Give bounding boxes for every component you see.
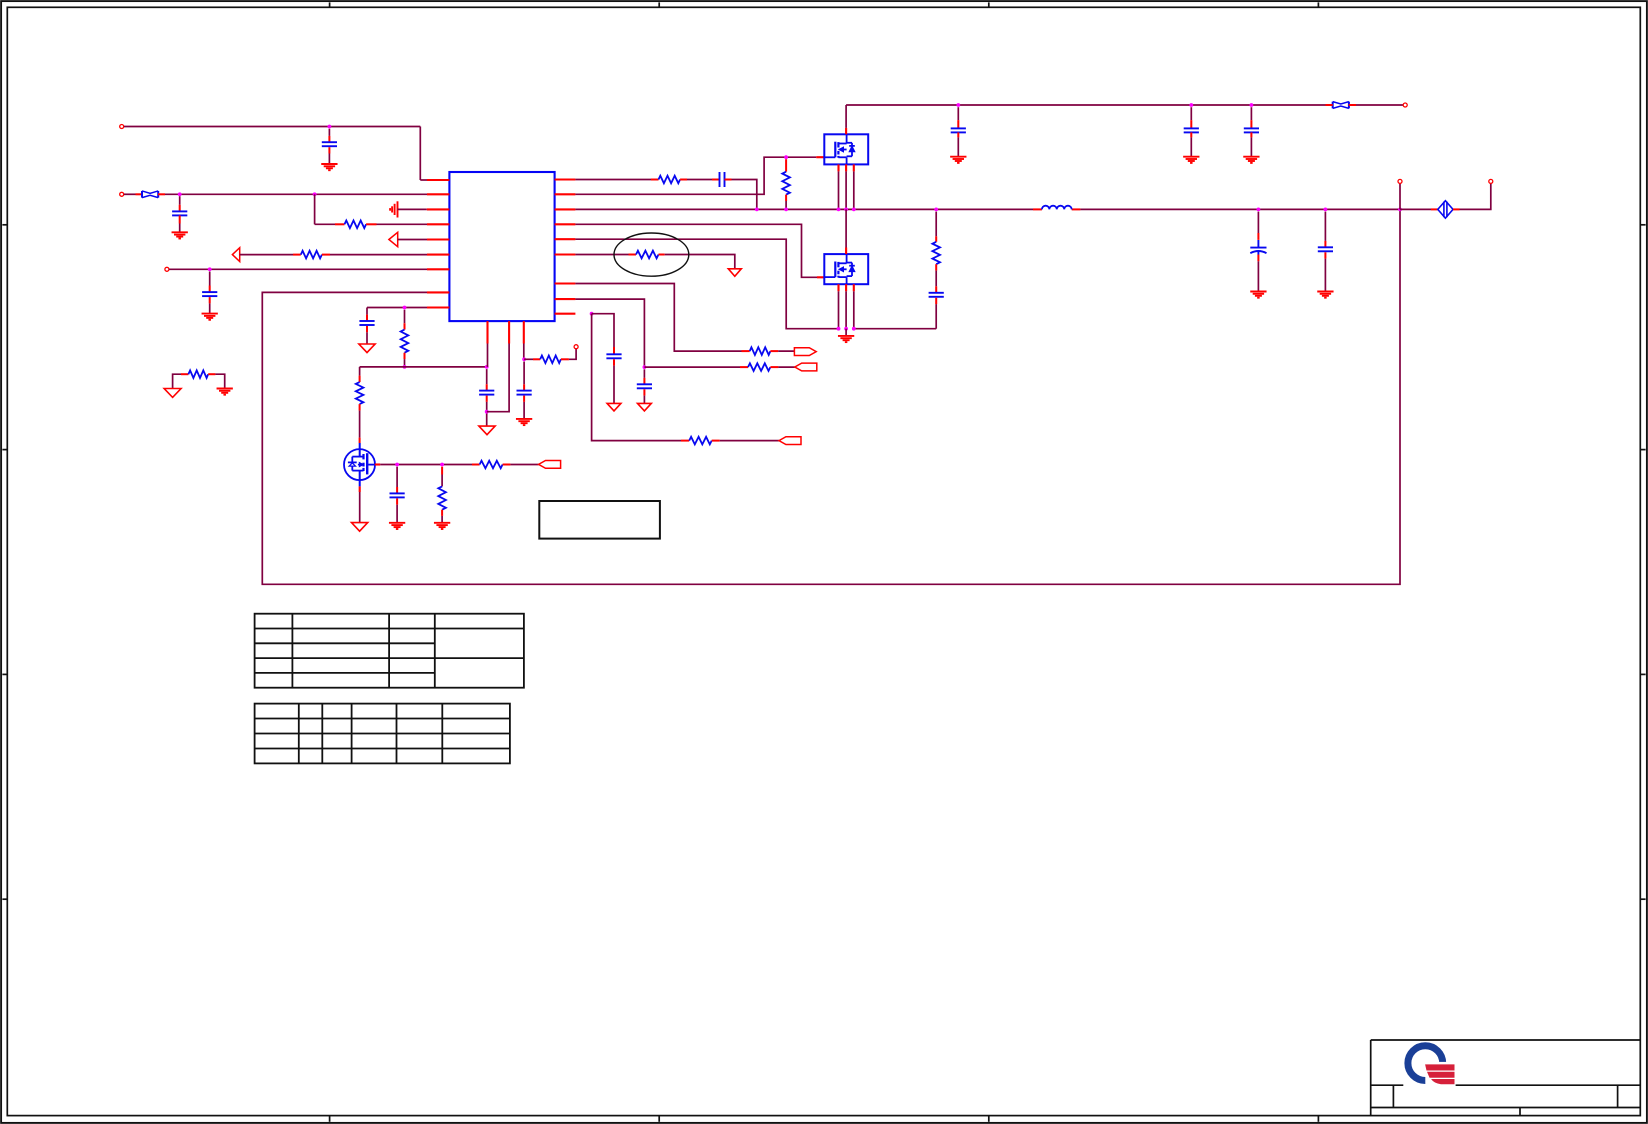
resistor R3: [173, 370, 225, 388]
junction pin8 node: [643, 365, 647, 369]
input port arrow PG: [389, 232, 398, 246]
Q1 drain stub: [845, 128, 847, 134]
transistor Q1: [824, 134, 868, 164]
wire R7 to C9: [680, 179, 719, 181]
annotation box: [539, 501, 660, 539]
capacitor C3: [202, 272, 217, 314]
junction VOUT/C14: [1257, 208, 1261, 212]
wire VOUT to J6: [1399, 184, 1401, 210]
junction PGND/Q2c: [852, 327, 856, 331]
wire net VIN5 top: [124, 127, 427, 181]
ground GND17: [389, 523, 405, 529]
junction PHASE/Q1b: [844, 208, 848, 212]
ground GND19 triangle: [352, 523, 368, 532]
transistor Q2: [824, 254, 868, 284]
wire pin7 to R11: [575, 284, 749, 352]
wire UGATE: [575, 157, 824, 194]
junction PHASE/snubber: [934, 208, 938, 212]
wire R2 to U1 pin6: [322, 254, 427, 256]
capacitor C15: [1318, 212, 1333, 292]
junction UGATE/R8: [784, 155, 788, 159]
wire EN branch down: [315, 194, 345, 224]
capacitor C7: [606, 354, 621, 403]
capacitor C8: [637, 369, 652, 403]
transistor Q3: [344, 443, 375, 486]
junction VIN/C11: [1189, 103, 1193, 107]
resistor R7: [659, 176, 681, 184]
capacitor C10: [951, 107, 966, 156]
wire FB loop: [262, 209, 1400, 584]
ground GND18: [434, 523, 450, 529]
annotation ellipse: [614, 233, 689, 276]
input port arrow FB2: [795, 363, 817, 371]
resistor R13: [689, 437, 712, 445]
ground GND6 triangle: [479, 426, 495, 435]
wire EN2 to R2: [240, 254, 301, 256]
ground GND21: [217, 389, 233, 395]
ground GND4: [202, 314, 218, 320]
ground GND13: [1183, 157, 1199, 163]
wire Q1 drain to VIN rail: [845, 105, 847, 128]
wire VIN rail: [846, 104, 1403, 106]
wire R1 to U1 pin4: [366, 223, 427, 225]
wire VOUT to NT1: [1400, 208, 1438, 210]
wire BOOT to R7: [575, 179, 658, 181]
resistor R1: [345, 221, 367, 229]
wire U1 bottom pin3 drop: [523, 344, 525, 360]
junction PHASE/BOOT: [755, 208, 759, 212]
wire R6 to J4: [561, 349, 576, 359]
capacitor C9 series: [720, 172, 725, 187]
junction C5 bottom tap: [485, 410, 489, 414]
ground GND20 triangle: [164, 389, 181, 398]
wire PGND rail right: [854, 328, 936, 330]
wire F1 to U1 pin2: [158, 193, 427, 195]
wire R13 to port: [712, 440, 779, 442]
ground GND5 triangle: [359, 344, 375, 353]
wire PHASE rail: [575, 208, 1400, 210]
terminal J1: [120, 125, 124, 129]
wire GND3 to U1 pin3: [398, 208, 428, 210]
resistor R4: [401, 310, 409, 367]
Q1 source stubs: [839, 164, 854, 171]
ground GND15: [1250, 292, 1266, 298]
wire NT1 to J7: [1453, 184, 1491, 210]
capacitor C5: [479, 369, 494, 426]
wire R9 to GND8: [659, 255, 735, 269]
terminal J3: [165, 267, 169, 271]
junction pin9 node: [590, 312, 594, 316]
resistor R12: [748, 363, 770, 371]
junction EN branch: [313, 192, 317, 196]
resistor R10 snubber: [932, 212, 940, 287]
resistor R2: [301, 251, 322, 259]
junction PHASE/Q1a: [837, 208, 841, 212]
wire to R6: [524, 358, 540, 360]
resistor R15: [438, 467, 446, 523]
ferrite bead F2: [1333, 102, 1349, 109]
capacitor C4: [359, 308, 374, 344]
output port arrow OUT1: [794, 348, 816, 356]
wire pin9 drop: [592, 314, 690, 441]
wire F2 leads: [1326, 104, 1357, 106]
wire LGATE: [575, 224, 824, 277]
wire pin8 drop: [575, 299, 644, 367]
junction PHASE/Q1c: [852, 208, 856, 212]
junction PGND/Q2b: [844, 327, 848, 331]
signal ground GND3 rotated: [390, 201, 397, 217]
capacitor C6: [517, 362, 532, 419]
wire R11 to port: [770, 350, 794, 352]
capacitor C12: [1244, 107, 1259, 156]
wire U1 pin9 row: [367, 307, 427, 309]
ground GND7: [516, 419, 532, 425]
ground GND1: [321, 164, 337, 170]
junction R4 top: [403, 306, 407, 310]
capacitor C14 polarized: [1250, 212, 1266, 292]
junction PHASE/R8: [784, 208, 788, 212]
wire PG to U1 pin5: [398, 239, 427, 241]
junction C3 tap: [208, 267, 212, 271]
ground GND2: [172, 232, 188, 238]
ground GND11: [838, 329, 854, 342]
wire U1 bottom pin2 drop: [487, 344, 509, 412]
capacitor C2: [172, 196, 187, 232]
revision table: [255, 614, 524, 688]
net-tie NT1: [1438, 201, 1453, 218]
resistor R9: [636, 251, 659, 259]
parameter table: [255, 704, 510, 764]
wire soft-start rail: [360, 366, 487, 368]
wire R12 to port: [770, 366, 794, 368]
wire PGND drop: [575, 239, 838, 329]
ground GND10 triangle: [607, 403, 621, 411]
wire R14 to port: [503, 464, 539, 466]
wire J3 to U1 pin7: [169, 268, 427, 270]
wire Q3 gate row: [380, 464, 479, 466]
terminal J2: [120, 192, 124, 196]
junction C2 tap: [178, 192, 182, 196]
terminal J5: [1403, 103, 1407, 107]
junction PGND/Q2a: [837, 327, 841, 331]
capacitor C11: [1184, 107, 1199, 156]
input port arrow DRV: [539, 461, 561, 469]
Quanta logo: [1408, 1046, 1454, 1088]
Q2 drain stub: [845, 248, 847, 255]
junction SS rail / C5: [485, 365, 489, 369]
junction R4 bottom: [403, 365, 407, 369]
ferrite bead F1: [142, 191, 158, 198]
capacitor C1: [322, 129, 337, 164]
inductor L1: [1042, 206, 1072, 210]
ground GND8 triangle: [728, 269, 741, 277]
capacitor C13 snubber: [929, 286, 944, 328]
wire pin8 to R12: [644, 366, 748, 368]
terminal J6: [1398, 179, 1402, 183]
Q3 gate stub: [375, 463, 380, 465]
Q3 source stub: [359, 486, 361, 492]
junction VIN/C10: [956, 103, 960, 107]
junction Q3/C16: [395, 463, 399, 467]
wire Q1 sources to PHASE: [839, 171, 854, 209]
wire U1 bottom pin1 drop: [487, 344, 489, 367]
junction Q3/R15: [440, 463, 444, 467]
junction pin3 drop: [522, 357, 526, 361]
resistor R6: [540, 356, 561, 364]
wire Q2 sources to PGND: [839, 291, 854, 328]
controller IC U1: [449, 172, 554, 321]
title block: [1371, 1040, 1641, 1116]
resistor R5 chain: [356, 367, 364, 443]
ground GND12: [950, 157, 966, 163]
wire C9 to PHASE: [725, 180, 757, 210]
input port arrow ILIM: [779, 437, 801, 445]
ground GND14: [1243, 157, 1259, 163]
terminal J4: [574, 345, 578, 349]
resistor R11: [750, 347, 771, 355]
resistor R14: [480, 461, 503, 469]
wire J2 to F1: [124, 193, 142, 195]
wire pin9 branch right: [592, 314, 614, 354]
junction VIN5/C1: [328, 125, 332, 129]
Q2 source stubs: [839, 284, 854, 291]
wire Q2 drain to PHASE: [845, 209, 847, 247]
capacitor C16: [390, 467, 405, 523]
junction VOUT/C15: [1324, 208, 1328, 212]
wire Q3 source to ground: [359, 492, 361, 522]
ground GND9 triangle: [638, 403, 652, 411]
input port arrow EN2: [232, 248, 239, 262]
resistor R8: [782, 159, 790, 209]
ground GND16: [1317, 292, 1333, 298]
junction VOUT node: [1398, 208, 1402, 212]
U1 pin stubs: [427, 180, 575, 344]
junction VIN/C12: [1250, 103, 1254, 107]
wire OCSET to R9: [575, 254, 636, 256]
terminal J7: [1489, 179, 1493, 183]
